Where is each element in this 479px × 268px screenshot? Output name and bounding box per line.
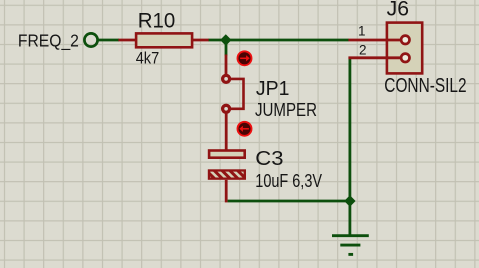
connector J6 pin 2 pad xyxy=(401,54,409,62)
terminal FREQ_2 xyxy=(84,33,97,46)
svg-text:10uF 6,3V: 10uF 6,3V xyxy=(255,171,322,191)
marker arrow right xyxy=(238,51,252,65)
svg-text:R10: R10 xyxy=(138,9,176,33)
wire C3 to ground junction xyxy=(228,200,350,203)
wire C3 down xyxy=(225,180,228,203)
svg-text:J6: J6 xyxy=(387,0,409,21)
wire node to J6 pin 1 lead xyxy=(348,39,401,42)
wire node down to JP1 xyxy=(225,40,228,56)
svg-text:FREQ_2: FREQ_2 xyxy=(18,31,79,52)
wire junction to ground xyxy=(348,201,351,236)
ground xyxy=(332,236,369,255)
capacitor C3 negative plate xyxy=(199,167,253,182)
jumper JP1 pin 2 xyxy=(223,105,230,112)
wire R10 to J6 pin 1 xyxy=(209,39,349,42)
jumper JP1 pin 1 lead xyxy=(225,55,228,75)
svg-text:1: 1 xyxy=(358,24,366,39)
resistor R10 left lead xyxy=(118,39,136,42)
wire terminal to R10 xyxy=(99,39,120,42)
wire JP1 pin 2 to C3 xyxy=(225,114,228,150)
svg-text:4k7: 4k7 xyxy=(136,49,160,68)
wire J6 pin 2 down to junction xyxy=(348,58,351,201)
marker arrow left xyxy=(238,122,252,136)
resistor R10 right lead xyxy=(192,39,209,42)
svg-text:C3: C3 xyxy=(255,147,283,170)
connector J6 pin 2 lead xyxy=(348,56,401,59)
svg-text:JUMPER: JUMPER xyxy=(255,99,317,120)
junction node at ground xyxy=(344,195,355,206)
capacitor C3 positive plate xyxy=(209,151,245,158)
connector J6 xyxy=(387,23,422,74)
svg-text:CONN-SIL2: CONN-SIL2 xyxy=(384,75,466,97)
jumper JP1 body xyxy=(231,79,244,109)
resistor R10 xyxy=(136,33,192,47)
connector J6 pin 1 pad xyxy=(401,36,409,44)
jumper JP1 pin 1 xyxy=(223,75,230,82)
svg-text:JP1: JP1 xyxy=(256,77,290,100)
svg-text:2: 2 xyxy=(359,42,367,57)
junction node at R10 output xyxy=(220,34,231,45)
